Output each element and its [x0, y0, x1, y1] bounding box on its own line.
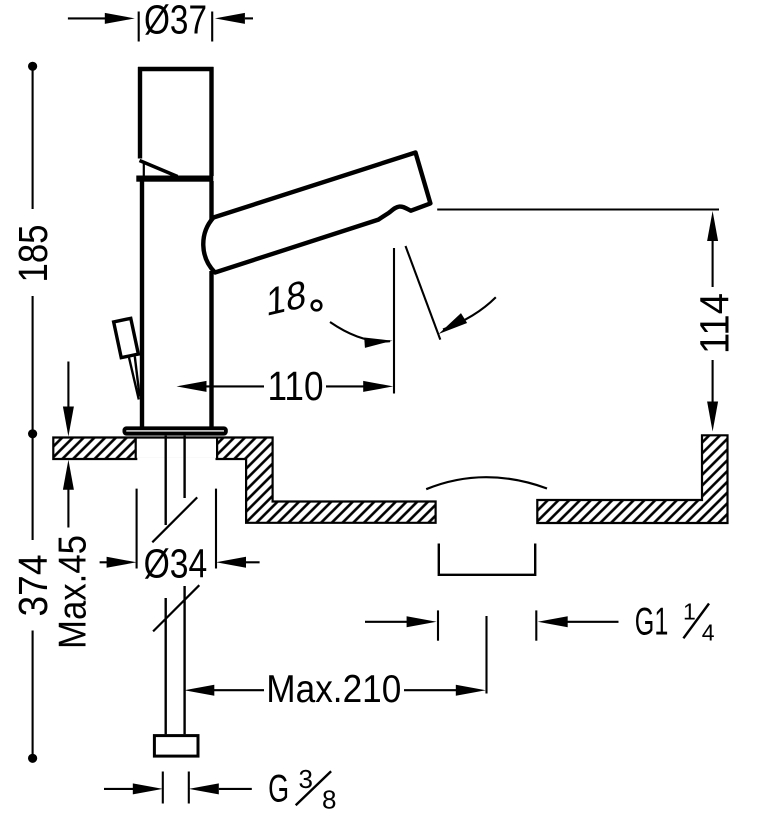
dimension G1 1/4 (drain thread) — [365, 598, 715, 645]
svg-text:G1: G1 — [635, 600, 669, 643]
threaded rod — [166, 436, 185, 735]
dimension 185 (left) — [10, 62, 56, 439]
svg-text:1: 1 — [683, 598, 696, 624]
svg-text:Max.45: Max.45 — [52, 535, 95, 649]
svg-text:114: 114 — [692, 293, 738, 354]
dimension Max.210 — [184, 616, 486, 711]
side lever knob — [114, 318, 139, 357]
spout angle line — [406, 246, 441, 340]
angle arc arrow left — [330, 322, 393, 348]
label 18 degrees — [266, 272, 321, 325]
dimension 114 (right) — [437, 210, 737, 432]
svg-text:Ø37: Ø37 — [144, 0, 207, 43]
dimension 374 (left lower) — [10, 434, 56, 763]
svg-text:Ø34: Ø34 — [144, 541, 208, 587]
side lever stem — [129, 357, 140, 400]
angle arc arrow right — [436, 297, 496, 339]
svg-text:8: 8 — [322, 785, 336, 815]
spout — [203, 153, 430, 273]
spout outlet centerline — [393, 248, 395, 394]
rod nut — [154, 736, 198, 757]
dimension D37 (top) — [68, 0, 253, 43]
faucet body — [142, 181, 212, 427]
dimension D34 (hole) — [100, 489, 260, 587]
rod break slash upper — [152, 497, 197, 542]
svg-text:Max.210: Max.210 — [266, 668, 401, 711]
drain tailpiece — [439, 544, 535, 575]
rod break slash lower — [153, 585, 199, 631]
svg-text:185: 185 — [10, 225, 56, 283]
svg-text:4: 4 — [702, 619, 715, 645]
dimension 110 (spout reach) — [177, 363, 394, 409]
faucet joint band — [136, 176, 213, 182]
dimension Max.45 (countertop thickness) — [52, 362, 95, 650]
dimension G 3/8 (supply thread) — [104, 764, 336, 814]
faucet handle (top) — [138, 67, 214, 177]
countertop right section (hatched) — [537, 435, 727, 523]
svg-text:110: 110 — [268, 363, 324, 409]
basin drain curve — [426, 477, 547, 489]
svg-text:374: 374 — [10, 555, 56, 617]
countertop left section (hatched) — [53, 438, 435, 523]
base flange — [124, 428, 225, 433]
svg-text:G: G — [268, 768, 289, 811]
